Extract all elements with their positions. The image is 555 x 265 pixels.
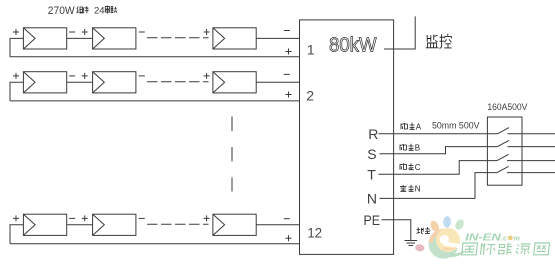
wire: string 12 dashed continuation (omitted panels): [147, 223, 209, 225]
svg-text:160A500V: 160A500V: [487, 102, 527, 112]
PV module string 1 panel 2: [93, 28, 136, 49]
label 零线N (neutral wire N): [400, 184, 421, 193]
wire: string 2 panel1 to panel2: [67, 81, 93, 83]
svg-text:A: A: [416, 122, 422, 131]
PV module string 12 panel 2: [93, 214, 136, 235]
- polarity label at inverter input string 12: [284, 218, 290, 220]
wire: phase R to switch pole 1: [378, 133, 497, 135]
switch pole 1 blade: [498, 128, 510, 134]
svg-text:S: S: [367, 146, 376, 162]
+ polarity label at inverter input string 1: [286, 49, 292, 55]
wire: string 12 positive return bus to inverter: [10, 243, 300, 245]
- terminal label, string 12 panel 1: [69, 217, 75, 219]
PV module string 1 panel 1: [23, 28, 66, 49]
svg-text:12: 12: [307, 224, 322, 240]
- terminal label, string 2 panel 2: [139, 75, 145, 77]
wire: string 2 positive return bus to inverter: [10, 100, 300, 102]
label 相线C (phase wire C): [400, 163, 421, 172]
+ terminal label, string 2 panel 2: [82, 73, 88, 79]
PV module string 1 panel 24: [213, 28, 256, 49]
switch pole 2 blade: [498, 140, 510, 146]
svg-text:270W: 270W: [48, 5, 75, 17]
wire: string 1 negative lead to inverter input: [256, 37, 299, 39]
wire: pole 4 output: [507, 172, 555, 174]
wire: string 1 panel1 to panel2: [67, 37, 93, 39]
switch pole 3 blade: [497, 154, 509, 160]
svg-text:m: m: [513, 233, 520, 242]
svg-text:2: 2: [306, 88, 314, 104]
- polarity label at inverter input string 1: [284, 30, 290, 32]
PV module string 2 panel 2: [93, 72, 136, 93]
wire: neutral N to switch pole 4: [380, 173, 498, 199]
svg-text:N: N: [367, 190, 377, 206]
svg-text:IN-EN: IN-EN: [465, 232, 501, 244]
switch pole 4 blade: [497, 166, 509, 172]
wire: pole 2 output: [508, 146, 555, 148]
ellipsis: omitted strings 3..11 (vertical dashed): [231, 117, 233, 192]
svg-text:C: C: [415, 163, 421, 172]
label 相线B (phase wire B): [400, 143, 420, 152]
label 相线A (phase wire A): [401, 122, 422, 131]
+ polarity label at inverter input string 2: [286, 92, 292, 98]
wire: pole 3 output: [507, 160, 555, 162]
wire: string 12 panel1 to panel2: [67, 224, 93, 226]
- polarity label at inverter input string 2: [284, 73, 290, 75]
svg-text:80kW: 80kW: [329, 34, 377, 56]
wire: string 1 dashed continuation (omitted panels): [147, 37, 209, 39]
+ terminal label, string 12 panel 24: [204, 215, 210, 221]
ground (earth electrode): [405, 241, 418, 246]
+ terminal label, string 1 panel 24: [204, 29, 210, 35]
svg-text:R: R: [368, 126, 378, 142]
wire: string 1 positive lead (panel1 left to bus): [10, 38, 23, 56]
+ terminal label, string 1 panel 2: [82, 29, 88, 35]
inverter U1 (80kW): [300, 20, 394, 255]
svg-text:PE: PE: [364, 212, 381, 228]
svg-text:50mm 500V: 50mm 500V: [432, 120, 480, 130]
+ terminal label, string 2 panel 1: [13, 73, 19, 79]
wire: pole 1 output: [508, 133, 555, 135]
- terminal label, string 2 panel 1: [69, 75, 75, 77]
- terminal label, string 1 panel 1: [69, 31, 75, 33]
+ terminal label, string 12 panel 1: [13, 215, 19, 221]
label 地线 (earth wire): [417, 227, 431, 234]
wire: string 2 negative lead to inverter input: [256, 81, 299, 83]
wire: phase S to switch pole 2: [380, 147, 498, 154]
PV module string 2 panel 24: [213, 72, 256, 93]
svg-text:T: T: [367, 166, 376, 182]
wire: string 1 positive return bus to inverter: [10, 56, 300, 58]
wire: string 2 positive lead (panel1 left to bus): [10, 82, 23, 101]
wire: PE to earth: [382, 220, 411, 240]
label 监控 (monitoring): [426, 34, 452, 49]
PV module string 12 panel 1: [23, 214, 66, 235]
PV module string 2 panel 1: [23, 72, 66, 93]
svg-text:24: 24: [94, 6, 105, 17]
switch QS1 enclosure: [487, 117, 522, 185]
wire: monitoring link: [384, 16, 415, 49]
svg-text:N: N: [415, 184, 421, 193]
+ polarity label at inverter input string 12: [286, 235, 292, 241]
+ terminal label, string 1 panel 1: [13, 29, 19, 35]
- terminal label, string 1 panel 2: [139, 31, 145, 33]
wire: string 12 negative lead to inverter input: [256, 224, 299, 226]
svg-text:1: 1: [307, 42, 315, 58]
- terminal label, string 12 panel 2: [139, 217, 145, 219]
title label: 270W 组件 24串联 (270W modules, 24 in series): [48, 5, 117, 17]
svg-text:.c: .c: [501, 233, 507, 242]
wire: string 12 positive lead (panel1 left to bus): [10, 225, 23, 244]
+ terminal label, string 2 panel 24: [204, 73, 210, 79]
+ terminal label, string 12 panel 2: [82, 215, 88, 221]
wire: phase T to switch pole 3: [378, 161, 497, 175]
svg-text:B: B: [415, 143, 420, 152]
wire: string 2 dashed continuation (omitted panels): [147, 81, 209, 83]
PV module string 12 panel 24: [213, 214, 256, 235]
